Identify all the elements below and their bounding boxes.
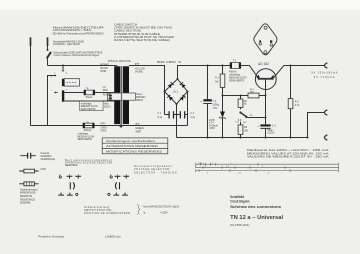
voltage selector link box xyxy=(64,79,79,86)
bridge corner nodes xyxy=(164,78,189,105)
wire: selector to fuse xyxy=(64,92,84,94)
svg-text:Änderungen vorbehalten: Änderungen vorbehalten xyxy=(106,139,156,143)
svg-text:b: b xyxy=(51,76,53,78)
svg-text:SEMI INERTE: SEMI INERTE xyxy=(81,109,96,111)
bridge diode top-right xyxy=(180,82,186,88)
output terminal bottom xyxy=(324,135,327,140)
svg-text:VOLTAGE SELECTOR: VOLTAGE SELECTOR xyxy=(134,168,169,171)
svg-text:4,7k: 4,7k xyxy=(295,104,300,107)
resistor R4 body xyxy=(248,93,259,98)
svg-text:SEMI INERTE: SEMI INERTE xyxy=(77,139,92,141)
wire: bridge AC2 column to secondary return xyxy=(187,92,189,126)
capacitor C3 2000u column xyxy=(207,66,209,138)
svg-text:Schaltbild: Schaltbild xyxy=(230,195,244,199)
capacitor C2 0,1u xyxy=(180,111,186,118)
svg-text:MEDIUM SLOW: MEDIUM SLOW xyxy=(81,106,99,108)
fuse T1 400mA xyxy=(230,63,241,69)
svg-text:1: 1 xyxy=(212,163,214,165)
mains plug pin right xyxy=(47,37,49,50)
svg-text:Z=Diode: Z=Diode xyxy=(209,125,218,127)
wire: selector drop stub xyxy=(62,66,64,72)
svg-text:MEASURING VALUES AT 220 AND 9V: MEASURING VALUES AT 220 AND 9V: 150 mA xyxy=(247,151,329,155)
resistor R3 body xyxy=(238,125,243,134)
wire: middle output terminal feed xyxy=(308,113,325,138)
svg-text:9V: 9V xyxy=(250,115,253,117)
collector fillet xyxy=(271,75,274,78)
legend resistor 1/2W symbol xyxy=(19,169,38,173)
note box under tap wire xyxy=(80,101,103,111)
wire: bottom mains rail xyxy=(31,125,188,127)
zener diode column xyxy=(222,96,224,138)
svg-text:R 1: R 1 xyxy=(215,77,219,80)
svg-text:MEDIUM SLOW: MEDIUM SLOW xyxy=(77,136,95,138)
wire: C1 C2 line xyxy=(165,114,188,116)
svg-text:JAUNE: JAUNE xyxy=(135,71,143,74)
transformer core line xyxy=(121,66,123,126)
wire: DC plus rail from bridge top xyxy=(178,66,231,80)
svg-text:VALEURS DE MESURE A 220 ET 9V: VALEURS DE MESURE A 220 ET 9V : 150 mA xyxy=(247,155,329,159)
svg-text:1 2,5 1: 1 2,5 1 xyxy=(198,163,205,165)
svg-text:c: c xyxy=(51,89,53,91)
svg-text:B40 C800: B40 C800 xyxy=(157,60,176,64)
selector position pictogram 220V xyxy=(108,174,129,195)
svg-text:1/2W: 1/2W xyxy=(40,168,46,171)
capacitor C3 plates xyxy=(203,99,211,104)
fuse Si2 500mA on bottom rail xyxy=(83,123,94,128)
svg-text:110809 Lau: 110809 Lau xyxy=(105,234,121,238)
svg-text:6(12)V: 6(12)V xyxy=(268,132,276,135)
svg-text:500mA: 500mA xyxy=(84,129,92,132)
svg-text:1M: 1M xyxy=(215,80,218,83)
transistor AD162 circle xyxy=(255,69,276,90)
svg-text:DANS CETTE SECTION DE CABLE): DANS CETTE SECTION DE CABLE) xyxy=(114,38,170,42)
bridge diode top-left xyxy=(168,82,174,88)
output terminal middle xyxy=(324,110,327,115)
svg-text:mittelträge: mittelträge xyxy=(77,133,88,136)
svg-text:SELECTEUR - TENSION: SELECTEUR - TENSION xyxy=(134,171,177,174)
svg-text:C 1: C 1 xyxy=(157,112,161,115)
selector position pictogram 110V xyxy=(58,174,81,195)
fuse Si 50mA xyxy=(84,90,95,95)
svg-text:4,7V: 4,7V xyxy=(209,123,214,125)
svg-text:1: 1 xyxy=(230,163,232,165)
bridge diode bottom-left xyxy=(167,94,173,100)
capacitor C4 column xyxy=(265,80,267,138)
svg-text:grün: grün xyxy=(135,122,140,125)
svg-text:120: 120 xyxy=(250,91,255,94)
transformer label window xyxy=(108,93,136,100)
transformer primary winding bar xyxy=(114,66,120,124)
svg-text:9V 150=180mA: 9V 150=180mA xyxy=(311,72,337,75)
voltage selector contact bar 2 xyxy=(62,90,64,101)
top white strip of scan xyxy=(0,0,360,10)
svg-text:POSITION DE COMMUTATEUR: POSITION DE COMMUTATEUR xyxy=(84,212,130,215)
wire: wiper to C4 column xyxy=(248,117,265,119)
svg-text:a: a xyxy=(54,73,56,75)
svg-text:50mA: 50mA xyxy=(86,96,93,99)
legend ceramic capacitor symbol xyxy=(20,153,35,159)
output terminal top xyxy=(324,63,327,68)
svg-text:CABLE SECTION): CABLE SECTION) xyxy=(114,28,141,32)
svg-text:d: d xyxy=(66,73,68,75)
svg-text:12V: 12V xyxy=(243,122,247,124)
nodes base rail xyxy=(222,95,267,97)
wire: selector to transformer primary tap xyxy=(64,100,114,102)
svg-text:SELECTEUR: SELECTEUR xyxy=(65,164,78,167)
svg-text:MODIFICATIONS RESERVEES: MODIFICATIONS RESERVEES xyxy=(106,149,162,153)
wire: fuse to transformer primary xyxy=(95,92,115,94)
svg-text:S1: S1 xyxy=(178,60,182,64)
capacitor C1 0,1u xyxy=(169,111,175,118)
node: cap midpoint xyxy=(176,114,178,116)
svg-text:6V =100mA: 6V =100mA xyxy=(314,76,335,79)
svg-text:VERT: VERT xyxy=(135,131,142,134)
collector lead xyxy=(273,66,284,79)
wire: secondary top rail into bridge AC1 xyxy=(129,66,165,92)
wire: base rail xyxy=(223,95,266,97)
svg-text:+: + xyxy=(200,99,202,103)
resistor R5 body xyxy=(288,99,293,109)
svg-text:*6V: *6V xyxy=(235,122,239,124)
bridge diode bottom-right xyxy=(180,94,186,100)
svg-text:5: 5 xyxy=(262,166,264,168)
svg-text:50-60Hz Perioden/c/s/PERIODES: 50-60Hz Perioden/c/s/PERIODES xyxy=(53,31,104,35)
node: switch line joins column xyxy=(265,117,267,119)
capacitor C4 plates xyxy=(260,124,270,128)
svg-text:1,5: 1,5 xyxy=(238,172,242,174)
svg-text:mittelträge: mittelträge xyxy=(81,102,92,105)
svg-text:C 2: C 2 xyxy=(190,112,194,115)
resistor R1 column xyxy=(222,66,224,96)
mains plug pin left xyxy=(30,37,32,125)
svg-text:390: 390 xyxy=(244,129,249,132)
node: under transformer xyxy=(120,125,123,128)
wire: primary top rail xyxy=(48,65,118,67)
svg-text:1: 1 xyxy=(207,172,209,174)
svg-text:(01-1555-1101): (01-1555-1101) xyxy=(230,223,249,227)
cord switch in mains lead xyxy=(47,49,52,66)
wire: lower DC rail xyxy=(177,137,308,139)
emitter arrow xyxy=(256,75,260,79)
svg-text:GL 1: GL 1 xyxy=(173,91,179,94)
nodes on lower rail xyxy=(207,137,309,139)
svg-text:schwarz: schwarz xyxy=(100,63,110,66)
AD162 package outline (TO-3 case bottom view) xyxy=(254,24,277,55)
svg-text:CERAMIQUE: CERAMIQUE xyxy=(41,158,56,161)
brace for switch position xyxy=(137,204,140,214)
resistor R5 column xyxy=(290,66,292,138)
transistor base bar xyxy=(258,78,274,80)
svg-text:e: e xyxy=(66,89,68,91)
svg-text:0513-00701: 0513-00701 xyxy=(108,59,132,63)
svg-text:BRUN: BRUN xyxy=(136,99,143,102)
svg-text:Meßwerte bei 220V~ und 9V= :: Meßwerte bei 220V~ und 9V= : 180 mA xyxy=(247,148,329,152)
resistor R2 column xyxy=(240,96,242,110)
node: R5 top xyxy=(290,65,292,67)
transformer secondary winding bar xyxy=(123,66,129,124)
resistor R3 stubs xyxy=(240,122,242,138)
svg-text:RED: RED xyxy=(103,89,108,92)
node: R1 top xyxy=(222,65,224,67)
svg-text:SEMI INERTE: SEMI INERTE xyxy=(229,80,245,83)
svg-text:=ZD=: =ZD= xyxy=(209,128,215,130)
wire: bridge minus column xyxy=(176,104,178,138)
contact c xyxy=(54,92,58,94)
svg-text:AD 162: AD 162 xyxy=(258,62,269,66)
svg-text:Circuit Diagram: Circuit Diagram xyxy=(230,200,249,204)
svg-text:947B: 947B xyxy=(209,120,215,122)
svg-text:TN 12 a – Universal: TN 12 a – Universal xyxy=(230,215,284,221)
alterations reserved box xyxy=(102,138,168,154)
resistor R1 body xyxy=(220,74,225,87)
wire: output 9V rail xyxy=(284,65,324,67)
voltage selector contact bar 1 xyxy=(62,79,64,87)
svg-text:NOIR: NOIR xyxy=(100,70,106,73)
svg-text:Si: Si xyxy=(86,87,89,90)
svg-text:*a: *a xyxy=(143,212,146,215)
svg-text:ROUGE: ROUGE xyxy=(103,94,112,97)
switch wiper 6/9/12V xyxy=(238,111,248,120)
svg-text:C 4: C 4 xyxy=(272,125,276,128)
svg-text:Printed in Germany: Printed in Germany xyxy=(38,235,64,239)
resistor R2 body xyxy=(238,99,243,107)
svg-text:+: + xyxy=(257,124,259,128)
bridge rectifier GL1 body xyxy=(165,79,188,104)
svg-text:GRIS: GRIS xyxy=(101,130,107,133)
node: C3 top xyxy=(207,65,209,67)
svg-text:grau: grau xyxy=(101,122,106,125)
svg-text:1: 1 xyxy=(205,166,207,168)
svg-text:T 1: T 1 xyxy=(233,59,237,62)
svg-text:Schéma des connexions: Schéma des connexions xyxy=(230,205,281,209)
svg-text:BOBINEE: BOBINEE xyxy=(20,202,31,205)
wire: fuse to transistor emitter xyxy=(241,66,259,78)
svg-text:75: 75 xyxy=(244,103,247,106)
svg-text:BLEU: BLEU xyxy=(104,106,111,109)
svg-text:16V: 16V xyxy=(213,107,218,110)
svg-text:4: 4 xyxy=(268,172,270,174)
legend wirewound resistor symbol xyxy=(19,182,38,186)
wire: bridge AC1 column to cap line xyxy=(164,92,166,115)
svg-text:= 220V: = 220V xyxy=(160,212,168,215)
zener diode xyxy=(219,112,226,120)
svg-text:ALTERATIONS RESERVED: ALTERATIONS RESERVED xyxy=(106,144,158,148)
node: selector feed junction xyxy=(62,65,64,67)
svg-text:1,5: 1,5 xyxy=(226,166,230,168)
svg-text:CORDON - SECTEUR: CORDON - SECTEUR xyxy=(53,42,80,46)
svg-text:0,1µ: 0,1µ xyxy=(157,116,162,119)
contact b with wire to bottom rail xyxy=(48,75,57,126)
svg-text:muß in diesem Schnurabschnitt: muß in diesem Schnurabschnitt liegen xyxy=(54,53,100,57)
svg-text:0,1µ: 0,1µ xyxy=(190,116,195,119)
svg-text:gelb: gelb xyxy=(135,63,140,66)
